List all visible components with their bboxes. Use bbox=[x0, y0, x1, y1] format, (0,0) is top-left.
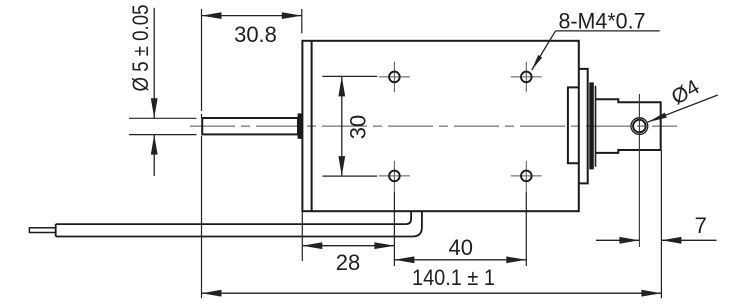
svg-text:7: 7 bbox=[695, 213, 707, 238]
svg-text:Ø 5 ± 0.05: Ø 5 ± 0.05 bbox=[128, 5, 153, 92]
svg-text:30.8: 30.8 bbox=[234, 22, 277, 47]
svg-text:40: 40 bbox=[448, 235, 472, 260]
svg-text:140.1 ± 1: 140.1 ± 1 bbox=[412, 265, 495, 290]
svg-text:30: 30 bbox=[345, 115, 370, 139]
svg-text:28: 28 bbox=[336, 250, 360, 275]
svg-text:8-M4*0.7: 8-M4*0.7 bbox=[559, 8, 646, 33]
svg-text:Ø4: Ø4 bbox=[668, 75, 704, 109]
